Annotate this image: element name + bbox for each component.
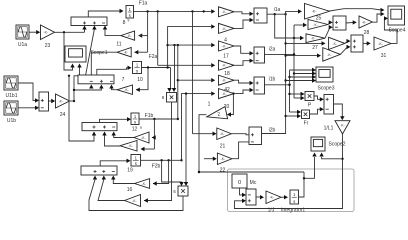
wire into sum S3 input1 [69, 76, 94, 141]
scope Scope1 [65, 46, 86, 62]
wire net gain 24 output (Ub) [70, 100, 75, 102]
wire F1a out down to gain 8 [147, 11, 149, 52]
wire F1b down to gain 12 [153, 119, 155, 149]
gain 13 (left feedback) [120, 141, 137, 152]
wire gain 42 out to i1b [234, 90, 250, 94]
scope Scope3 [316, 67, 333, 82]
wire into gain 13 [142, 148, 155, 150]
wire gain 11 output to sum S2 first input [91, 52, 117, 80]
wire gain 15 out to sum S4 minus [113, 180, 134, 184]
gain 15 (left) [135, 179, 150, 189]
wire gain T output to Scope4 [330, 9, 382, 11]
wire gain 25 out to sum R1 [328, 22, 330, 24]
diagonal wire into sum S1 middle input [86, 29, 95, 76]
svg-text:-K-: -K- [222, 10, 226, 14]
wire stub gain 17 input [158, 64, 211, 66]
svg-text:7: 7 [122, 77, 125, 83]
wire sum R1 to gain 28 [346, 21, 354, 24]
svg-text:31: 31 [381, 53, 387, 59]
wire F2a down to gain 7 [136, 68, 148, 90]
wire gain 17 out to i2a [234, 61, 250, 66]
svg-text:18: 18 [224, 71, 230, 77]
wire gain42 line to product X2 input2 [185, 94, 187, 183]
gain 1/J [266, 191, 281, 204]
svg-text:-K-: -K- [132, 199, 136, 203]
wire net F1a output bus [134, 10, 212, 12]
svg-text:Scope2: Scope2 [329, 142, 346, 148]
sum SM (+ +) [246, 189, 256, 205]
svg-text:-K-: -K- [222, 27, 226, 31]
gain 28 [359, 16, 372, 28]
wire scope3 input stubs [290, 69, 313, 71]
product X2 [178, 186, 188, 196]
svg-text:25: 25 [316, 16, 322, 22]
integrator F1a (1/s) [126, 6, 134, 19]
svg-text:17: 17 [223, 54, 229, 60]
integrator F2b (1/s) [131, 155, 141, 167]
sum i1a (+ -) [254, 8, 267, 23]
gain T (top big) [305, 4, 330, 20]
gain 42 [219, 89, 235, 99]
svg-text:21: 21 [220, 144, 226, 150]
wire sum R2 to gain 31 [363, 42, 367, 44]
integrator F2a (1/s) [133, 62, 142, 74]
wire gain 28 to Scope4 in2 [372, 14, 381, 22]
gain 21 [217, 128, 232, 140]
wire U1a to gain 23 [29, 31, 37, 33]
wire gain 31 to Scope4 in3 [384, 18, 397, 43]
gain 24 [56, 94, 70, 108]
svg-text:-K-: -K- [269, 196, 273, 200]
svg-text:27: 27 [312, 45, 318, 51]
wire gain 27 out to sum R2 [345, 41, 348, 43]
wire h3 to gain 4 [168, 44, 211, 46]
svg-text:U1b: U1b [7, 118, 16, 124]
svg-text:s: s [129, 13, 131, 18]
wire riser i1a to gainY input [275, 14, 301, 38]
wire gain 16 output to sum S4 in2 [98, 180, 125, 201]
wire sum S1 output to F1a [88, 11, 119, 17]
wire gain 22 out to i2b [232, 142, 250, 159]
wire net i1b output [265, 84, 290, 86]
sum R2 (+ +) [351, 35, 363, 52]
wire net gain23 output [55, 31, 85, 33]
wire riser F2b bus (x181.5) [182, 94, 212, 161]
gain a1 [219, 7, 235, 17]
svg-text:-K-: -K- [362, 20, 366, 24]
svg-text:9: 9 [128, 19, 130, 23]
svg-text:-K-: -K- [220, 132, 224, 136]
wire gain 7 output to sum S2 minus [112, 88, 118, 90]
wire riser x157.7 down to gain17 line [157, 11, 159, 65]
wire sum SM to gain 1/J [256, 196, 261, 198]
gain 1/L1 (down) [335, 121, 350, 134]
constant block 0 [232, 174, 247, 188]
source U1a sine block [16, 25, 29, 39]
gain a2 [219, 23, 235, 33]
svg-text:Integrator1: Integrator1 [281, 208, 305, 214]
wire riser V4 x294 [293, 25, 295, 98]
svg-text:-K-: -K- [124, 51, 128, 55]
gain 11 (left feedback) [117, 48, 131, 57]
sum R1 (+ -) [333, 16, 346, 30]
svg-text:0: 0 [238, 180, 241, 186]
product X1 [167, 93, 177, 103]
svg-text:Scope1: Scope1 [91, 50, 108, 56]
wire net i2a output [265, 53, 295, 55]
wire P output to sum SP [314, 96, 321, 99]
svg-text:s: s [293, 199, 295, 204]
wire gain a1 out to i1a [234, 12, 250, 14]
gain 27 [329, 37, 345, 49]
sum block S1 (wide, + + -) [71, 17, 107, 26]
gain 4 [219, 41, 235, 51]
svg-text:F1b: F1b [145, 113, 154, 119]
gain 25 [308, 20, 328, 30]
gain 8 (left feedback) [121, 31, 135, 40]
svg-text:-K-: -K- [222, 44, 226, 48]
wire net F2a output [142, 67, 171, 69]
svg-text:s: s [136, 68, 138, 73]
gain 18 [219, 75, 235, 85]
svg-text:-K-: -K- [378, 42, 383, 46]
wire U1b to sum SU [19, 107, 36, 109]
svg-text:s: s [135, 161, 137, 166]
scope Scope4 [388, 6, 405, 25]
svg-text:11: 11 [116, 42, 121, 48]
svg-text:U1b1: U1b1 [6, 93, 18, 99]
wire net Integrator1 output [299, 172, 305, 197]
wire gain 18 out to i1b [234, 80, 250, 83]
svg-text:-K-: -K- [311, 37, 315, 41]
wire h3 to product X1 input 2 [174, 45, 176, 89]
integrator F1b (1/s) [131, 113, 139, 125]
wire stub gain 18 input [178, 79, 211, 81]
wire gain a2 out to i1a [234, 20, 250, 28]
wire sum SP to gain 1/L1 [334, 104, 343, 117]
svg-text:24: 24 [60, 112, 66, 118]
wire product X2 output to sum S4 in1 [89, 180, 183, 211]
gain 31 [374, 37, 391, 50]
wire net speed feedback y172 [199, 171, 304, 173]
subsystem boundary box around torque loop [228, 169, 355, 212]
svg-text:F2a: F2a [149, 54, 158, 60]
svg-text:9: 9 [140, 126, 142, 130]
svg-text:-K-: -K- [44, 31, 49, 35]
gain 23 [41, 25, 55, 40]
gain 22 [217, 153, 232, 165]
svg-text:-K-: -K- [124, 88, 128, 92]
svg-text:i2b: i2b [269, 128, 276, 134]
wire riser F2a to gain beta (x167.6) [168, 27, 211, 68]
svg-text:-K-: -K- [312, 10, 318, 14]
wire 0 to sum SM [240, 188, 243, 195]
svg-text:16: 16 [127, 187, 133, 193]
wire riser V3 x289.5 [289, 70, 291, 112]
wire sum S4 output to F2b [100, 161, 127, 166]
wire sum S2 output to F2a [97, 68, 129, 75]
svg-text:Fr: Fr [304, 121, 309, 127]
sum SP (+ -) [324, 95, 334, 115]
svg-text:-K-: -K- [340, 124, 344, 128]
sum i2b (+ -) [249, 127, 262, 145]
svg-text:19: 19 [127, 168, 133, 174]
wire gain X out to sum R2 [340, 47, 347, 54]
sum block S2 (wide, - + -) [78, 75, 114, 84]
svg-text:10: 10 [137, 77, 143, 83]
svg-text:12: 12 [132, 127, 138, 133]
gain Y (cross) [306, 34, 325, 43]
wire into Scope1 input 2 [79, 68, 81, 76]
svg-text:i1a: i1a [274, 7, 281, 13]
svg-text:-K-: -K- [222, 92, 226, 96]
wire F2a to product X1 input 1 [170, 68, 172, 90]
wire gain Y out to sum R1 [325, 27, 330, 38]
wire gain 2 input riser (x233.4) [228, 94, 234, 115]
source U1b1 sine block [4, 76, 18, 90]
wire riser F1b bus (x177.8) [177, 45, 179, 119]
sum block S4 (wide, + + -) [81, 166, 117, 175]
wire net F1b output [139, 118, 178, 120]
gain 2 (left pointing) [205, 107, 227, 123]
svg-text:8: 8 [123, 20, 126, 26]
svg-text:22: 22 [220, 168, 226, 174]
wire net 1/L1 output big loop [235, 134, 343, 209]
wire gain 2 output down to feedback line [199, 115, 207, 172]
wire net i2b output riser [262, 11, 299, 133]
wire gain11 branch arrowhead into S2 [89, 85, 93, 89]
wire branch to Scope2 input2 [322, 157, 343, 159]
svg-text:-K-: -K- [141, 136, 145, 140]
svg-text:1/J: 1/J [268, 208, 275, 214]
integrator Integrator1 (1/s) [290, 190, 299, 204]
svg-text:s: s [134, 119, 136, 124]
svg-text:-K-: -K- [333, 42, 337, 46]
svg-text:Mc: Mc [250, 180, 257, 186]
wire net F2b output [141, 159, 182, 161]
sum block SU (+ -) [39, 92, 49, 111]
wire F1a out down to gain 11 [135, 51, 148, 53]
wire gain 21 out to i2b [231, 134, 250, 135]
svg-text:-K-: -K- [127, 34, 131, 38]
wire gain 1/J to Integrator1 [281, 196, 285, 198]
wire F2b down to gain 15 [153, 160, 169, 183]
svg-text:-K-: -K- [313, 23, 317, 27]
gain 7 (left feedback) [117, 85, 133, 94]
svg-text:F1a: F1a [139, 1, 148, 7]
svg-text:i2a: i2a [269, 47, 276, 53]
product Fr [302, 110, 310, 119]
wire Scope2 input1 riser [304, 157, 315, 178]
gain 16 (left) [125, 195, 141, 207]
wire F2b to product X2 input1 [162, 160, 182, 183]
wire stub gain 27 input [286, 42, 322, 44]
svg-text:-K-: -K- [222, 79, 226, 83]
svg-text:U1a: U1a [18, 42, 27, 48]
svg-text:1: 1 [208, 102, 211, 108]
sum i2a (+ -) [254, 47, 265, 63]
gain 12 (left feedback) [134, 132, 149, 143]
wire gain 8 output to sum S1 minus [105, 29, 121, 36]
scope Scope2 [311, 137, 325, 151]
svg-text:-K-: -K- [59, 99, 64, 103]
wire product X1 output down to gain 16 [144, 102, 172, 201]
gain X (cross) [323, 48, 341, 62]
wire gain 4 out to i2a [234, 46, 250, 53]
sum i1b (+ -) [254, 77, 265, 94]
wire product Fr input stubs [290, 111, 298, 113]
svg-text:-K-: -K- [128, 144, 132, 148]
svg-text:-K-: -K- [327, 53, 331, 57]
wire sum S3 output to F1b [100, 119, 128, 122]
wire sum SU to gain 24 [49, 100, 53, 102]
svg-text:i1b: i1b [269, 77, 276, 83]
svg-text:F2b: F2b [152, 164, 161, 170]
sum block S3 (wide, + + -) [82, 123, 117, 131]
wire gain 12 output to sum S3 minus [114, 135, 134, 138]
wire into gain 22 input [204, 158, 213, 160]
source U1b sine block [4, 101, 18, 115]
wire Fr output to sum SP [310, 109, 321, 114]
product P [305, 92, 314, 101]
svg-text:-K-: -K- [222, 64, 226, 68]
svg-text:23: 23 [45, 43, 51, 49]
svg-text:1/L1: 1/L1 [324, 126, 334, 132]
svg-text:-K-: -K- [142, 182, 146, 186]
gain 17 [219, 60, 235, 70]
svg-text:-K-: -K- [221, 157, 225, 161]
wire net i1a output [267, 13, 286, 15]
wire gain 13 output to sum S3 mid [105, 135, 121, 146]
svg-text:Scope3: Scope3 [318, 86, 335, 92]
svg-text:28: 28 [364, 30, 370, 36]
wire stub gain X input [286, 55, 318, 57]
wire U1b1 to sum SU [19, 83, 37, 100]
wire product P input stubs [290, 93, 302, 95]
wire into gain 21 input [193, 133, 214, 135]
wire riser x192.5 to gain 21 [192, 11, 194, 133]
